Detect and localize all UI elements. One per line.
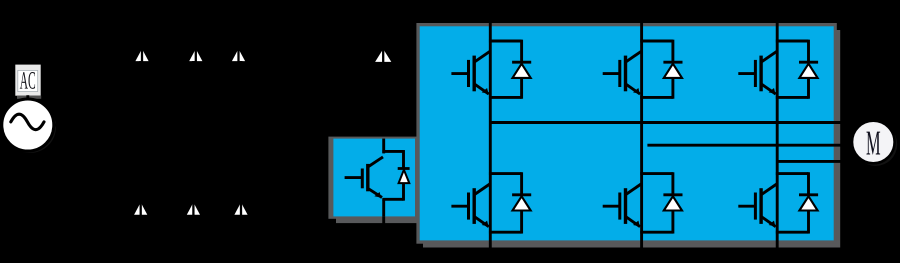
wire inverter leg 2 high-side diode branch upper: [671, 40, 674, 63]
wire inverter leg 1 low-side diode branch lower: [520, 211, 523, 234]
transistor Q2 gate lead: [603, 72, 620, 75]
wire negative DC bus rail (bottom): [141, 248, 836, 251]
wire chopper bottom node horizontal: [382, 198, 403, 201]
rectifier diode D6 (bottom, phase C): [234, 202, 247, 214]
wire inverter leg 2 low-side bottom node horizontal: [640, 231, 673, 234]
transistor Q4 body bar: [473, 188, 476, 224]
transistor Q3 gate bar: [754, 60, 757, 87]
wire rectifier leg phase A vertical: [141, 20, 144, 50]
AC source V1 circle: [4, 101, 56, 153]
transistor Q3 gate lead: [738, 72, 755, 75]
wire chopper diode branch upper: [402, 150, 405, 168]
wire inverter leg 1 low-side diode branch upper: [520, 172, 523, 195]
transistor Q4 gate lead: [451, 205, 468, 208]
transistor Q5 emitter arrow: [633, 221, 640, 227]
transistor Q1 gate bar: [467, 60, 470, 87]
wire AC source to rectifier phase input: [54, 124, 142, 127]
transistor Q2 gate bar: [618, 60, 621, 87]
wire rectifier input riser: [141, 20, 144, 125]
wire inverter leg 1 main vertical: [489, 18, 492, 249]
wire positive DC bus rail (top): [142, 19, 836, 22]
transistor Q4 collector stroke: [475, 184, 490, 195]
rectifier diode D2 (top, phase B): [189, 49, 202, 61]
rectifier diode D5 (bottom, phase B): [187, 202, 200, 214]
wire chopper top node horizontal: [382, 150, 403, 153]
diode D11 cathode bar: [799, 61, 818, 64]
wire chopper diode branch lower: [402, 183, 405, 201]
brake chopper box border: [328, 137, 416, 219]
transistor Q6 body bar: [759, 188, 762, 224]
diode D10 cathode bar: [663, 61, 682, 64]
wire inverter leg 2 low-side diode branch upper: [671, 172, 674, 195]
brake chopper box shadow: [336, 144, 420, 223]
wire inverter leg 2 high-side diode branch lower: [671, 78, 674, 99]
rectifier diode D3 (top, phase C): [232, 49, 245, 61]
transistor Q4 emitter arrow: [482, 221, 489, 227]
wire inverter leg 3 low-side diode branch upper: [807, 172, 810, 195]
transistor Q3 emitter arrow: [769, 88, 776, 94]
wire chopper riser to positive rail: [382, 20, 385, 49]
transistor Q5 emitter stroke: [626, 217, 640, 227]
transistor Q4 gate bar: [467, 193, 470, 220]
brake chopper box fill: [333, 139, 415, 217]
diode D13 (antiparallel freewheel): [664, 196, 682, 210]
wire inverter leg 1 high-side bottom node horizontal: [489, 96, 522, 99]
transistor Q5 body bar: [624, 188, 627, 224]
transistor Q1 emitter stroke: [475, 84, 489, 94]
wire inverter leg 2 high-side top node horizontal: [640, 40, 673, 43]
transistor Q1 body bar: [473, 56, 476, 92]
rectifier diode D1 (top, phase A): [135, 49, 148, 61]
diode D8 cathode bar (chopper): [398, 167, 410, 170]
transistor Q4 emitter stroke: [475, 217, 489, 227]
diode D14 cathode bar: [799, 193, 818, 196]
transistor Q3 body bar: [759, 56, 762, 92]
transistor Q3 collector stroke: [761, 51, 776, 62]
transistor Q7 gate bar: [361, 169, 364, 189]
inverter box fill: [420, 26, 834, 240]
transistor Q2 collector stroke: [626, 51, 641, 62]
transistor Q7 body bar: [366, 164, 369, 191]
wire phase U output (leg 1 midpoint to motor): [490, 121, 854, 124]
transistor Q7 collector stroke: [368, 157, 383, 167]
diode D13 cathode bar: [663, 193, 682, 196]
transistor Q6 gate bar: [754, 193, 757, 220]
transistor Q7 emitter arrow: [374, 192, 381, 198]
wire rectifier leg phase C vertical: [237, 20, 240, 50]
wire inverter leg 1 low-side bottom node horizontal: [489, 231, 522, 234]
motor M1 circle: [854, 123, 897, 166]
wire rectifier leg phase B vertical: [194, 20, 197, 50]
wire inverter leg 3 high-side bottom node horizontal: [776, 96, 809, 99]
diode D9 cathode bar: [512, 61, 531, 64]
brake diode D7 (above chopper box): [375, 49, 391, 62]
transistor Q7 emitter stroke: [368, 188, 382, 197]
wire inverter leg 1 low-side top node horizontal: [489, 172, 522, 175]
wire inverter leg 2 high-side bottom node horizontal: [640, 96, 673, 99]
diode D11 (antiparallel freewheel): [799, 64, 817, 78]
diode D14 (antiparallel freewheel): [799, 196, 817, 210]
wire chopper collector (main vertical in box): [382, 139, 385, 154]
wire inverter leg 1 high-side diode branch upper: [520, 40, 523, 63]
diode D12 (antiparallel freewheel): [513, 196, 531, 210]
transistor Q2 emitter stroke: [626, 84, 640, 94]
wire inverter leg 1 high-side diode branch lower: [520, 78, 523, 99]
diode D9 (antiparallel freewheel): [513, 64, 531, 78]
wire inverter leg 2 low-side diode branch lower: [671, 211, 674, 234]
wire inverter leg 3 high-side diode branch lower: [807, 78, 810, 99]
transistor Q6 emitter arrow: [769, 221, 776, 227]
wire inverter leg 1 high-side top node horizontal: [489, 40, 522, 43]
AC source label text: [20, 72, 35, 89]
wire inverter leg 3 high-side diode branch upper: [807, 40, 810, 63]
motor M1 label text: [866, 132, 880, 155]
wire phase V output (leg 2 midpoint to motor): [647, 144, 854, 147]
wire inverter leg 2 main vertical: [640, 18, 643, 249]
wire inverter leg 3 high-side top node horizontal: [776, 40, 809, 43]
transistor Q2 emitter arrow: [633, 88, 640, 94]
wire phase W output (leg 3 midpoint to motor): [777, 160, 854, 163]
inverter box shadow: [423, 30, 840, 248]
diode D12 cathode bar: [512, 193, 531, 196]
wire AC label to source: [26, 95, 29, 101]
transistor Q2 body bar: [624, 56, 627, 92]
transistor Q6 gate lead: [738, 205, 755, 208]
transistor Q3 emitter stroke: [761, 84, 775, 94]
AC source sine wave symbol: [11, 114, 44, 129]
transistor Q1 collector stroke: [475, 51, 490, 62]
diode D10 (antiparallel freewheel): [664, 64, 682, 78]
wire chopper output to negative rail: [382, 216, 385, 249]
wire inverter leg 3 main vertical: [776, 18, 779, 249]
transistor Q5 collector stroke: [626, 184, 641, 195]
wire inverter leg 3 low-side bottom node horizontal: [776, 231, 809, 234]
transistor Q7 gate lead (chopper IGBT): [345, 176, 363, 179]
wire inverter leg 2 low-side top node horizontal: [640, 172, 673, 175]
transistor Q6 emitter stroke: [761, 217, 775, 227]
transistor Q1 gate lead: [451, 72, 468, 75]
transistor Q5 gate lead: [603, 205, 620, 208]
rectifier diode D4 (bottom, phase A): [134, 202, 147, 214]
transistor Q1 emitter arrow: [482, 88, 489, 94]
wire chopper emitter to box bottom: [382, 199, 385, 216]
transistor Q6 collector stroke: [761, 184, 776, 195]
wire inverter leg 3 low-side diode branch lower: [807, 211, 810, 234]
inverter box border: [416, 23, 836, 244]
transistor Q5 gate bar: [618, 193, 621, 220]
diode D8 (chopper antiparallel): [399, 170, 410, 183]
AC source label box: [15, 65, 40, 96]
wire inverter leg 3 low-side top node horizontal: [776, 172, 809, 175]
